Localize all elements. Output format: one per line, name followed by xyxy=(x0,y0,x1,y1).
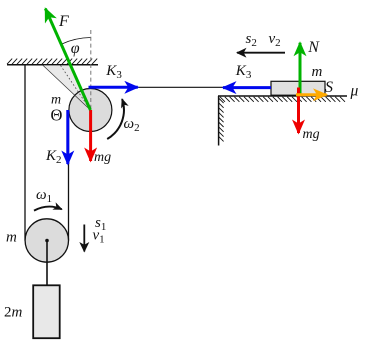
svg-text:mg: mg xyxy=(94,150,111,165)
svg-text:μ: μ xyxy=(350,82,359,99)
svg-text:2m: 2m xyxy=(4,304,23,320)
svg-text:F: F xyxy=(58,13,69,30)
svg-text:m: m xyxy=(312,64,323,80)
svg-text:m: m xyxy=(6,230,17,246)
svg-text:S: S xyxy=(325,79,333,96)
svg-text:Θ: Θ xyxy=(51,105,63,124)
svg-text:φ: φ xyxy=(71,40,80,57)
svg-text:mg: mg xyxy=(303,127,320,142)
svg-text:N: N xyxy=(307,39,320,56)
